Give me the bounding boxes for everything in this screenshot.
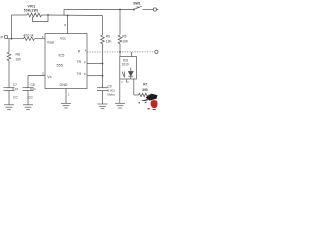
svg-text:R5: R5 (106, 35, 110, 39)
svg-text:R8: R8 (16, 53, 20, 57)
svg-text:CC: CC (28, 96, 33, 100)
svg-text:400Jk: 400Jk (23, 34, 34, 38)
svg-text:100: 100 (16, 58, 22, 62)
svg-text:10K: 10K (122, 40, 129, 44)
svg-text:12K: 12K (106, 40, 113, 44)
svg-text:R6: R6 (122, 35, 126, 39)
svg-text:0.01: 0.01 (30, 87, 36, 91)
svg-text:IC5: IC5 (59, 54, 65, 58)
svg-text:50K(2W): 50K(2W) (24, 9, 39, 13)
svg-text:0.01: 0.01 (12, 87, 18, 91)
svg-text:555: 555 (57, 64, 63, 68)
svg-text:P: P (1, 34, 4, 39)
svg-text:CC: CC (13, 96, 18, 100)
svg-text:Vc: Vc (47, 75, 51, 79)
svg-text:GND: GND (60, 83, 68, 87)
svg-text:1010: 1010 (122, 62, 129, 66)
svg-text:390: 390 (142, 88, 148, 92)
svg-text:Vcc: Vcc (60, 37, 66, 41)
svg-text:Vsal: Vsal (47, 40, 54, 44)
svg-text:TR: TR (77, 60, 82, 64)
svg-text:TH: TH (77, 72, 82, 76)
svg-text:Mylar: Mylar (108, 93, 115, 97)
svg-text:R7: R7 (143, 83, 147, 87)
